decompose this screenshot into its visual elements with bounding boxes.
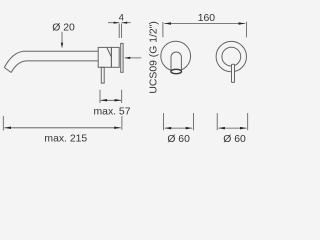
svg-text:Ø 60: Ø 60 [167,134,190,145]
svg-text:UCS09 (G 1/2"): UCS09 (G 1/2") [148,21,159,93]
svg-text:max. 57: max. 57 [94,107,131,118]
svg-text:Ø 60: Ø 60 [223,134,246,145]
svg-text:160: 160 [198,13,216,24]
svg-text:4: 4 [119,12,124,23]
svg-text:max. 215: max. 215 [44,134,87,145]
svg-text:Ø 20: Ø 20 [52,23,75,34]
